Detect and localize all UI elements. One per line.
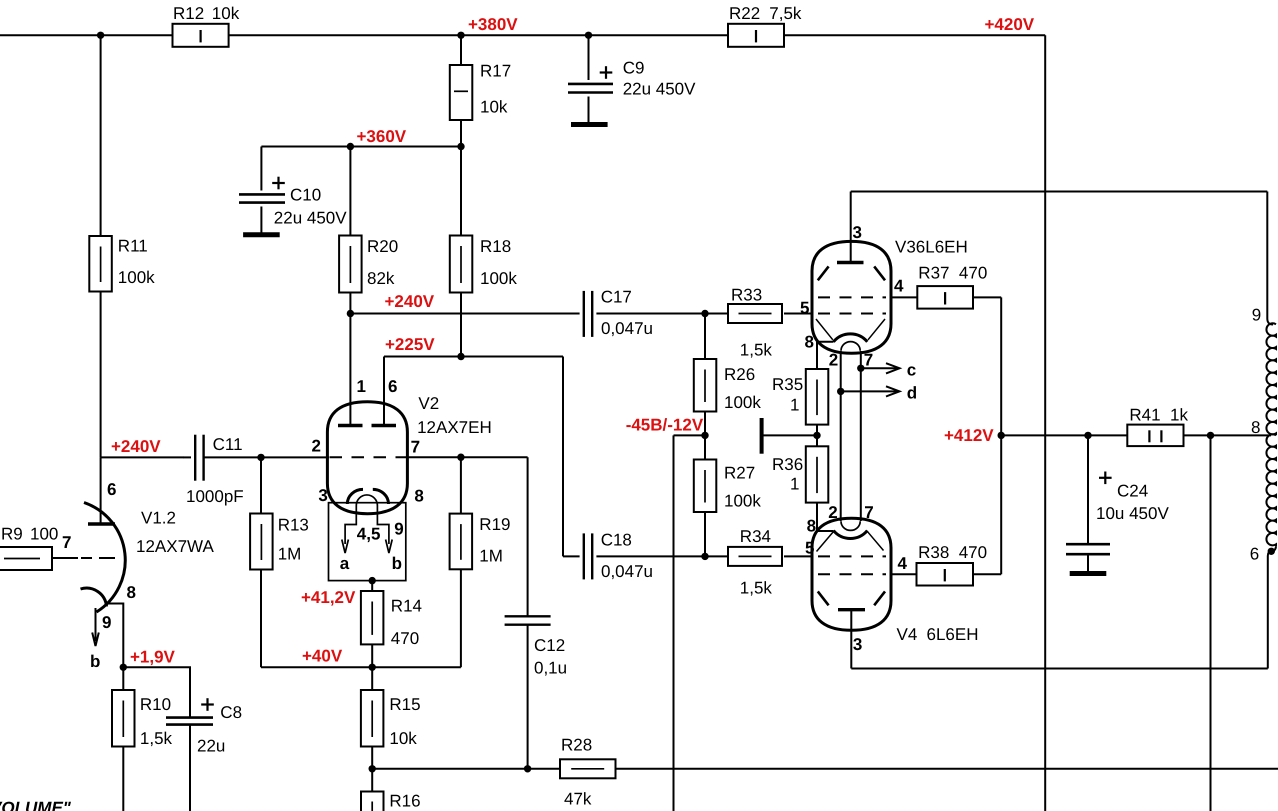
svg-text:V2: V2 [418, 394, 439, 413]
svg-text:+360V: +360V [357, 127, 407, 146]
wire C12 leads [527, 457, 529, 769]
svg-text:22u: 22u [197, 737, 225, 756]
svg-text:a: a [340, 554, 350, 573]
svg-text:d: d [907, 384, 917, 403]
wire V3 anode top lead [850, 192, 852, 263]
wire R36 bottom lead [817, 503, 834, 531]
svg-text:10k: 10k [480, 98, 508, 117]
svg-text:3: 3 [853, 635, 862, 654]
svg-text:+380V: +380V [468, 15, 518, 34]
node +360V node [457, 143, 464, 150]
svg-text:9: 9 [394, 520, 403, 539]
wire R35 top lead [817, 342, 834, 369]
wire bottom row [372, 768, 1278, 770]
capacitor C8 [166, 698, 242, 755]
svg-text:+1,9V: +1,9V [130, 648, 176, 667]
ground (C10) [243, 232, 280, 237]
wire R14 leads [371, 581, 373, 668]
svg-text:b: b [392, 554, 402, 573]
svg-text:82k: 82k [367, 269, 395, 288]
svg-text:R36: R36 [772, 455, 803, 474]
svg-text:10k: 10k [212, 4, 240, 23]
wire V2 grid (dashed grid) [330, 456, 407, 458]
resistor R22 [728, 24, 784, 47]
wire transformer pin6 lead [1268, 546, 1276, 668]
svg-text:-45B/-12V: -45B/-12V [626, 416, 704, 435]
capacitor C12 [505, 616, 551, 624]
wire +225V row [384, 357, 580, 557]
svg-text:1000pF: 1000pF [186, 487, 244, 506]
node C17-R33 node [701, 310, 708, 317]
svg-text:+240V: +240V [111, 437, 161, 456]
wire C24 leads [1087, 435, 1089, 573]
tube V4 anode plate (pin 3) [838, 608, 865, 611]
wire R38 row [891, 435, 1001, 574]
svg-text:1,5k: 1,5k [740, 579, 773, 598]
svg-text:1,5k: 1,5k [140, 729, 173, 748]
svg-text:R20: R20 [367, 237, 398, 256]
resistor R11 [89, 236, 155, 292]
svg-text:C11: C11 [213, 435, 243, 454]
wire V4 g1 (dashed grid) [818, 555, 886, 557]
svg-text:4: 4 [898, 554, 908, 573]
svg-text:R34: R34 [740, 527, 771, 546]
wire R16 top lead [371, 769, 373, 792]
svg-text:+40V: +40V [302, 647, 343, 666]
tube V1 cathode arrow (pin 9 / b) [95, 608, 97, 641]
capacitor C17 [584, 288, 653, 339]
resistor R20 [339, 236, 398, 293]
node rail +380V junction [457, 32, 464, 39]
wire R37 row [891, 297, 1001, 435]
wire R18 bottom lead [460, 293, 462, 357]
wire +412V row [1001, 434, 1271, 436]
svg-text:100k: 100k [118, 268, 155, 287]
tube V3 heater bump [841, 342, 860, 351]
wire V3 g2 (dashed grid) [818, 296, 886, 298]
ground (C24) [1070, 571, 1107, 576]
svg-text:1: 1 [357, 377, 366, 396]
wire C8 top lead [123, 667, 190, 811]
svg-text:8: 8 [1251, 418, 1260, 437]
wire +420V bus drop [1044, 35, 1046, 811]
svg-text:R15: R15 [389, 695, 420, 714]
wire R17 top lead [460, 35, 462, 65]
capacitor C11 [186, 435, 244, 506]
node R35-R36 node [813, 432, 820, 439]
node d arrow [841, 384, 917, 403]
svg-text:0,1u: 0,1u [534, 659, 567, 678]
tube V3 anode plate (pin 3) [837, 261, 864, 264]
wire +240V row [350, 313, 813, 315]
svg-text:+412V: +412V [944, 426, 994, 445]
tube V4 heater bump [841, 521, 860, 530]
svg-text:R37 470: R37 470 [918, 264, 987, 283]
svg-text:1M: 1M [479, 547, 503, 566]
svg-text:C17: C17 [601, 288, 632, 307]
transformer primary winding upper (9-8) [1266, 323, 1276, 435]
capacitor C24 [1066, 472, 1169, 555]
wire V3-V4 pin7 link [860, 351, 862, 521]
svg-text:10u 450V: 10u 450V [1096, 504, 1169, 523]
svg-text:R19: R19 [479, 515, 510, 534]
capacitor C10 [239, 177, 347, 228]
resistor R41 [1127, 425, 1183, 447]
svg-text:6: 6 [388, 377, 397, 396]
tube V2 heater leads with arrows a/b (pins 4,5,9) [345, 506, 356, 545]
resistor R12 [173, 24, 229, 47]
wire C10 leads [260, 147, 262, 235]
svg-text:0,047u: 0,047u [601, 319, 653, 338]
resistor R19 [450, 514, 511, 570]
tube V3 cathode arc (pin 8) [834, 334, 868, 342]
wire R11 leads [100, 35, 102, 457]
wire R13 leads [260, 457, 262, 667]
svg-text:C18: C18 [601, 531, 632, 550]
wire -45B bus [673, 435, 675, 811]
resistor R33 [728, 304, 782, 323]
resistor R35 [806, 369, 829, 425]
svg-text:R27: R27 [724, 464, 755, 483]
svg-text:470: 470 [391, 629, 419, 648]
wire R15 leads [371, 667, 373, 769]
svg-text:6: 6 [107, 480, 116, 499]
wire V3 anode to transformer [851, 191, 1268, 193]
svg-text:R13: R13 [278, 516, 309, 535]
tube V1 cathode arc (pin 8) [81, 588, 107, 606]
wire V4 anode bottom lead [850, 610, 852, 669]
svg-text:C9: C9 [623, 59, 645, 78]
wire right bus [1210, 435, 1212, 811]
svg-text:4,5: 4,5 [357, 525, 381, 544]
wire R10 leads [122, 667, 124, 811]
svg-text:12AX7EH: 12AX7EH [417, 418, 492, 437]
wire R35-R36 link [816, 425, 818, 447]
svg-text:22u 450V: 22u 450V [623, 80, 696, 99]
svg-text:R41 1k: R41 1k [1129, 406, 1188, 425]
wire R26 leads [704, 314, 706, 460]
svg-text:2: 2 [828, 503, 837, 522]
tube V2 anode plates (pins 1,6) [338, 424, 363, 427]
svg-text:100k: 100k [724, 492, 761, 511]
resistor R34 [728, 547, 782, 566]
wire R20 leads [349, 147, 351, 314]
svg-text:+420V: +420V [985, 15, 1035, 34]
wire V1 +240V row [101, 456, 329, 458]
ground (C9) [571, 122, 608, 127]
wire V1 grid [52, 557, 78, 559]
svg-text:100k: 100k [480, 269, 517, 288]
svg-text:+225V: +225V [385, 335, 435, 354]
resistor R37 [917, 286, 973, 309]
V2 heater box [329, 503, 406, 581]
resistor R13 [250, 514, 309, 570]
svg-text:100k: 100k [724, 393, 761, 412]
wire C9 leads [588, 35, 590, 124]
wire V1 pin6 lead [100, 457, 102, 522]
resistor R15 [361, 690, 421, 748]
node d node [837, 388, 844, 395]
wire V4 g2 (dashed grid) [818, 573, 886, 575]
svg-text:8: 8 [807, 516, 816, 535]
node -45B node [701, 432, 708, 439]
node +1,9V node [120, 664, 127, 671]
svg-text:2: 2 [312, 437, 321, 456]
node R15-R16 node [369, 765, 376, 772]
resistor R14 [361, 591, 422, 648]
svg-text:7: 7 [864, 351, 873, 370]
svg-text:+41,2V: +41,2V [301, 588, 356, 607]
tube V4 beam plates lower [818, 591, 829, 605]
svg-text:R22: R22 [729, 4, 760, 23]
node +360V R20 junction [347, 143, 354, 150]
svg-text:C10: C10 [290, 186, 321, 205]
svg-text:3: 3 [318, 486, 327, 505]
svg-text:V4: V4 [897, 625, 918, 644]
node transformer pin 6 node [1268, 548, 1275, 555]
svg-text:47k: 47k [564, 790, 592, 809]
node +412V node [998, 432, 1005, 439]
svg-text:C24: C24 [1117, 482, 1148, 501]
wire +360V row [261, 146, 461, 148]
node C12 bottom node [524, 765, 531, 772]
node +225V node [457, 353, 464, 360]
svg-text:8: 8 [805, 333, 814, 352]
svg-text:R17: R17 [480, 62, 511, 81]
svg-text:12AX7WA: 12AX7WA [136, 537, 214, 556]
svg-text:c: c [907, 361, 916, 380]
wire V2 pin1 lead [349, 314, 351, 425]
wire V1 grid dashes [81, 557, 115, 559]
svg-text:R26: R26 [724, 365, 755, 384]
resistor R10 [112, 690, 173, 748]
svg-text:5: 5 [800, 298, 809, 317]
resistor R26 [694, 359, 762, 412]
wire R17-R18 link [460, 120, 462, 236]
svg-text:+240V: +240V [385, 292, 435, 311]
svg-text:C12: C12 [534, 636, 565, 655]
svg-text:1M: 1M [278, 545, 302, 564]
svg-text:7,5k: 7,5k [769, 4, 802, 23]
wire V2 pin6 lead [383, 357, 385, 425]
svg-text:2: 2 [829, 351, 838, 370]
tube V1 envelope arc [84, 503, 125, 613]
svg-text:9: 9 [1252, 306, 1261, 325]
svg-text:R33: R33 [731, 286, 762, 305]
node bias T-bar [760, 418, 764, 454]
svg-text:0,047u: 0,047u [601, 562, 653, 581]
node c node [857, 365, 864, 372]
tube V4 6L6EH envelope [812, 518, 891, 630]
capacitor C18 [584, 531, 653, 582]
svg-text:8: 8 [414, 487, 423, 506]
node V2 pin7 node [457, 454, 464, 461]
node transformer tap node [1207, 432, 1214, 439]
resistor R17 [450, 62, 511, 121]
wire bias feed [762, 434, 817, 436]
svg-text:R10: R10 [140, 695, 171, 714]
svg-text:10k: 10k [389, 729, 417, 748]
svg-text:R28: R28 [561, 736, 592, 755]
wire transformer top lead [1267, 192, 1273, 325]
tube V1 anode plate (pin 6) [88, 522, 115, 525]
svg-text:1,5k: 1,5k [740, 341, 773, 360]
svg-text:R9: R9 [1, 525, 23, 544]
svg-text:C8: C8 [220, 703, 242, 722]
svg-text:R18: R18 [480, 237, 511, 256]
svg-text:7: 7 [411, 437, 420, 456]
svg-text:100: 100 [30, 525, 58, 544]
svg-text:6L6EH: 6L6EH [927, 625, 979, 644]
wire -45B feed [674, 434, 706, 436]
wire V2 pin7 row [407, 456, 527, 458]
tube V3 beam plate lines lower [816, 319, 833, 340]
wire V3 g1 (dashed grid) [818, 313, 886, 315]
svg-text:R14: R14 [391, 597, 422, 616]
node c arrow [861, 361, 916, 380]
svg-text:V36L6EH: V36L6EH [895, 238, 968, 257]
wire V4 anode to transformer pin 6 [851, 668, 1268, 670]
svg-text:6: 6 [1250, 545, 1259, 564]
resistor R28 [560, 759, 616, 778]
node C24 node [1084, 432, 1091, 439]
wire R27 bottom lead [704, 512, 706, 556]
svg-text:R11: R11 [118, 237, 148, 256]
transformer primary winding lower (8-6) [1266, 434, 1276, 546]
tube V4 beam plate lines upper [817, 532, 834, 552]
svg-text:R35: R35 [772, 375, 803, 394]
resistor R17 inner mark [454, 90, 468, 92]
node rail-R11 junction [97, 32, 104, 39]
tube V3 6L6EH envelope [812, 241, 891, 353]
tube V2 cathode arcs (pins 3,8) [347, 489, 363, 504]
wire V1 pin8 lead [107, 604, 123, 668]
node rail C9 junction [585, 32, 592, 39]
wire V3-V4 pin2 link [840, 351, 842, 521]
node +240V node [347, 310, 354, 317]
svg-text:4: 4 [894, 277, 904, 296]
svg-text:b: b [90, 652, 100, 671]
node C11-R13 node [257, 454, 264, 461]
resistor R27 [694, 460, 762, 513]
svg-text:7: 7 [62, 533, 71, 552]
wire C11 gap-fix [183, 456, 191, 458]
capacitor C9 [568, 59, 696, 99]
node C18-R34 node [701, 553, 708, 560]
resistor R16 (cut at bottom edge) [361, 792, 421, 811]
tube V2 12AX7EH envelope [327, 402, 407, 514]
svg-text:8: 8 [127, 583, 136, 602]
svg-text:1: 1 [790, 475, 799, 494]
resistor R38 [917, 563, 974, 586]
svg-text:R12: R12 [173, 4, 204, 23]
node +40V node [369, 664, 376, 671]
node V2 heater box - R14 node [369, 577, 376, 584]
wire top +380V rail [0, 34, 1045, 36]
svg-text:1: 1 [790, 396, 799, 415]
tube V2 heater bump [356, 495, 377, 506]
wire +40V row [261, 666, 461, 668]
resistor R36 [806, 446, 829, 502]
svg-text:V1.2: V1.2 [141, 509, 176, 528]
svg-text:3: 3 [853, 223, 862, 242]
wire R19 leads [460, 457, 462, 667]
svg-text:"VOLUME": "VOLUME" [0, 799, 72, 811]
svg-text:R16: R16 [389, 792, 420, 811]
resistor R9 [0, 525, 58, 571]
svg-text:5: 5 [805, 539, 814, 558]
svg-text:22u 450V: 22u 450V [274, 209, 347, 228]
tube V3 beam plates [818, 266, 829, 280]
tube V4 cathode arc (pin 8) [834, 531, 868, 539]
resistor R18 [450, 236, 518, 293]
svg-text:9: 9 [102, 613, 111, 632]
wire C18 row [596, 555, 813, 557]
svg-text:7: 7 [864, 503, 873, 522]
svg-text:R38 470: R38 470 [918, 543, 987, 562]
